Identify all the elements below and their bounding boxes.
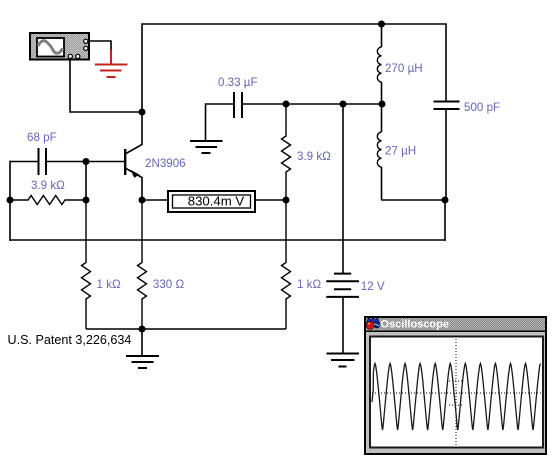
node emitter: [139, 197, 146, 204]
scope graticule vertical: [455, 339, 457, 445]
resistor R2 3.9 kohm (collector load): [282, 104, 291, 200]
node base left: [7, 197, 14, 204]
svg-text:3.9 kΩ: 3.9 kΩ: [297, 150, 331, 163]
node tank bottom: [442, 197, 449, 204]
ground (battery): [327, 354, 360, 367]
resistor R4 330 ohm: [138, 200, 147, 329]
svg-text:1 kΩ: 1 kΩ: [97, 278, 121, 291]
svg-text:0.33 µF: 0.33 µF: [218, 76, 258, 89]
svg-text:270 µH: 270 µH: [385, 62, 423, 75]
node collector/scope: [139, 109, 146, 116]
svg-text:12 V: 12 V: [361, 280, 385, 293]
capacitor C2 0.33 uF: [206, 92, 287, 141]
wire left riser: [9, 162, 11, 241]
wire emitter to right tank: [382, 199, 445, 201]
ground (0.33uF): [190, 141, 223, 153]
wire mid rail: [286, 103, 382, 105]
node voltmeter right: [283, 197, 290, 204]
wire bottom rail: [10, 239, 445, 241]
node ground join: [139, 326, 146, 333]
wire scope channel A: [70, 60, 142, 112]
svg-text:Oscilloscope: Oscilloscope: [381, 319, 449, 331]
inductor L1 270 uH: [377, 24, 381, 104]
wire scope to ground: [88, 41, 111, 50]
wire right drop to bottom rail: [444, 200, 446, 240]
oscilloscope XSC1 icon: [30, 33, 89, 60]
svg-text:2N3906: 2N3906: [145, 157, 186, 170]
node cap/R junction: [283, 101, 290, 108]
svg-text:3.9 kΩ: 3.9 kΩ: [31, 179, 65, 192]
wire top rail: [142, 24, 446, 112]
ground (red, scope): [95, 50, 128, 77]
svg-text:U.S. Patent 3,226,634: U.S. Patent 3,226,634: [8, 333, 132, 347]
wire base: [86, 161, 125, 163]
transistor Q1 2N3906: [125, 112, 142, 200]
node inductor junction: [379, 101, 386, 108]
node battery top: [340, 101, 347, 108]
svg-text:27 µH: 27 µH: [385, 145, 416, 158]
resistor R1 3.9 kohm (base): [10, 196, 86, 205]
svg-text:68 pF: 68 pF: [27, 131, 57, 144]
voltmeter 830.4m V: [142, 191, 286, 212]
node base: [83, 158, 90, 165]
scope graticule horizontal: [372, 392, 541, 394]
capacitor C1 68 pF: [10, 148, 86, 175]
inductor L2 27 uH: [377, 104, 381, 200]
wire bottom join: [86, 328, 286, 330]
scope waveform trace: [372, 364, 541, 431]
capacitor C3 500 pF: [434, 24, 460, 200]
battery V1 12 V: [326, 104, 359, 353]
node top rail: [378, 21, 385, 28]
svg-text:830.4m V: 830.4m V: [188, 194, 245, 209]
svg-text:330 Ω: 330 Ω: [153, 278, 185, 291]
oscilloscope window icon: [366, 317, 380, 329]
node base divider: [83, 197, 90, 204]
scope graticule ticks: [449, 381, 463, 405]
resistor R5 1 kohm (right): [282, 200, 291, 329]
wire base divider: [85, 162, 87, 201]
svg-text:1 kΩ: 1 kΩ: [297, 278, 321, 291]
oscilloscope window: [364, 316, 547, 455]
svg-text:500 pF: 500 pF: [464, 101, 500, 114]
ground (emitter network): [126, 329, 159, 368]
resistor R3 1 kohm: [82, 200, 91, 329]
